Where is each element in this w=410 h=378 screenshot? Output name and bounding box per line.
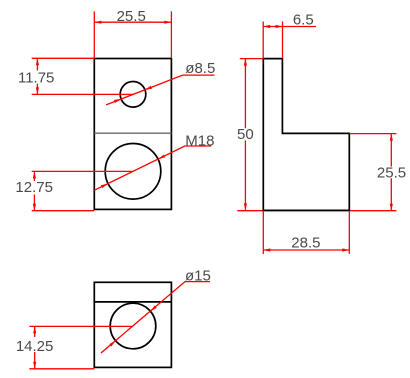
dim 12.75: bottom extension line xyxy=(32,210,95,212)
svg-text:ø15: ø15 xyxy=(185,267,211,284)
dim 14.25: dimension line upper segment xyxy=(34,326,36,337)
dim 25.5 right: down arrow xyxy=(390,204,393,211)
svg-text:M18: M18 xyxy=(185,132,214,149)
leader dia 8.5: polyline xyxy=(106,75,214,105)
dim 11.75: up arrow xyxy=(36,58,39,65)
dim 12.75: dimension line upper segment xyxy=(33,171,35,181)
leader M18: lower arrow at circle edge xyxy=(101,184,108,189)
dim 14.25: down arrow xyxy=(33,362,36,369)
side view L outline xyxy=(263,59,349,211)
dim 50: up arrow xyxy=(244,59,247,66)
dim 11.75: dimension line lower segment xyxy=(36,84,38,95)
svg-text:12.75: 12.75 xyxy=(15,179,53,196)
dim 25.5 right: dimension line upper segment xyxy=(390,134,392,167)
svg-text:11.75: 11.75 xyxy=(18,70,54,87)
dim 14.25: dimension line lower segment xyxy=(34,352,36,369)
svg-text:6.5: 6.5 xyxy=(293,11,314,28)
dim 6.5: right arrow xyxy=(276,25,283,28)
dim 50: dimension line lower segment xyxy=(244,141,246,211)
dim 6.5: left arrow xyxy=(263,25,270,28)
dim 11.75: top extension line xyxy=(32,57,95,59)
leader dia 15: lower arrow at circle edge xyxy=(109,341,115,347)
dim 11.75: dimension line upper segment xyxy=(36,58,38,70)
dim 28.5: right extension line xyxy=(348,211,350,254)
dim 12.75: dimension line lower segment xyxy=(33,195,35,211)
dim 25.5 top: right extension line xyxy=(170,11,172,58)
dim 25.5 top: left arrow xyxy=(94,21,101,24)
dim 25.5 top: right arrow xyxy=(164,21,171,24)
bottom view inner line xyxy=(94,301,171,303)
dim 28.5: dimension line xyxy=(263,249,349,251)
leader dia 15: polyline xyxy=(101,282,210,353)
dim 28.5: left arrow xyxy=(263,248,270,251)
dim 12.75: top extension line to circle center xyxy=(32,170,133,172)
bottom view hole circle xyxy=(110,303,156,349)
dim 12.75: down arrow xyxy=(33,204,36,211)
front view outline xyxy=(94,59,171,210)
svg-text:28.5: 28.5 xyxy=(291,235,320,252)
dim 25.5 top: left extension line xyxy=(93,11,95,58)
front view middle line xyxy=(94,132,171,134)
leader M18: polyline xyxy=(94,146,211,190)
dim 6.5: dimension line with leader to text xyxy=(263,26,316,28)
dim 11.75: bottom extension line to circle center xyxy=(32,93,133,95)
bottom view outline xyxy=(94,282,171,367)
svg-text:25.5: 25.5 xyxy=(377,165,406,182)
dim 25.5 right: top extension line xyxy=(349,133,396,135)
leader dia 8.5: lower arrow at circle edge xyxy=(114,99,121,103)
leader M18: upper arrow at circle edge xyxy=(158,155,165,160)
dim 11.75: down arrow xyxy=(36,87,39,94)
dim 28.5: right arrow xyxy=(342,248,349,251)
leader dia 15: upper arrow at circle edge xyxy=(150,306,156,312)
dim 25.5 right: dimension line lower segment xyxy=(390,178,392,210)
svg-text:50: 50 xyxy=(237,126,254,143)
svg-text:14.25: 14.25 xyxy=(16,338,54,355)
dim 12.75: up arrow xyxy=(33,171,36,178)
dim 28.5: left extension line xyxy=(262,211,264,254)
dim 25.5 top: dimension line xyxy=(94,21,171,23)
dim 50: top extension line xyxy=(240,58,263,60)
shared bottom extension line of side view xyxy=(237,210,396,212)
dim 14.25: up arrow xyxy=(33,326,36,333)
dim 50: dimension line upper segment xyxy=(244,59,246,129)
front view large hole circle xyxy=(105,144,161,200)
dim 6.5: right extension line xyxy=(282,22,284,59)
dim 50: down arrow xyxy=(244,203,247,210)
dim 6.5: left extension line xyxy=(262,22,264,59)
dim 14.25: bottom extension line xyxy=(29,368,94,370)
dim 14.25: top extension line to circle center xyxy=(29,325,131,327)
front view small hole circle xyxy=(120,82,146,108)
dim 25.5 right: up arrow xyxy=(390,134,393,141)
svg-text:25.5: 25.5 xyxy=(117,8,146,25)
leader dia 8.5: upper arrow at circle edge xyxy=(145,86,152,90)
svg-text:ø8.5: ø8.5 xyxy=(185,60,215,77)
